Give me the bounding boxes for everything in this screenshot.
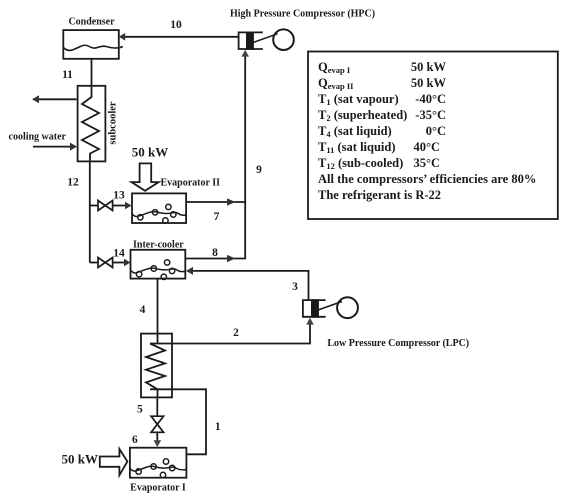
svg-text:Inter-cooler: Inter-cooler [133,240,184,251]
svg-text:50 kW: 50 kW [411,60,447,74]
svg-text:High Pressure Compressor (HPC): High Pressure Compressor (HPC) [230,9,375,20]
intercooler IC [131,250,186,280]
svg-text:4: 4 [140,304,146,316]
condenser C [63,30,123,59]
wire 2 (HX to LPC) [150,318,314,344]
svg-text:-35°C: -35°C [415,108,446,122]
wire 11 (condenser to subcooler) [91,59,93,86]
svg-text:10: 10 [170,19,182,31]
svg-text:35°C: 35°C [413,156,440,170]
svg-text:7: 7 [214,211,220,223]
cooling water inlet arrow [33,143,77,151]
svg-text:2: 2 [233,327,239,339]
valve V13 [90,201,132,211]
svg-text:6: 6 [132,434,138,446]
wire 12 (subcooler down to valves) [89,161,91,262]
svg-text:50 kW: 50 kW [132,145,168,160]
subcooler SC [78,86,106,162]
svg-text:9: 9 [256,164,262,176]
svg-text:Condenser: Condenser [68,17,115,28]
info text [318,60,536,202]
svg-text:50 kW: 50 kW [411,76,447,90]
info box [308,52,558,220]
evaporator E2 [132,193,187,223]
wire 10 (HPC to condenser) [119,33,239,41]
wire 3 (LPC to intercooler) [186,267,309,300]
svg-text:T1 (sat vapour): T1 (sat vapour) [318,92,399,107]
svg-text:The refrigerant is R-22: The refrigerant is R-22 [318,188,441,202]
svg-text:11: 11 [62,69,73,81]
wire 9 (into HPC) [241,50,249,259]
svg-text:3: 3 [292,281,298,293]
svg-text:14: 14 [113,248,125,260]
svg-text:40°C: 40°C [413,140,440,154]
heat input block arrow (Evaporator I) [100,449,128,475]
svg-text:13: 13 [113,190,125,202]
svg-text:8: 8 [212,247,218,259]
svg-text:T2 (superheated): T2 (superheated) [318,108,407,123]
svg-text:All the compressors’ efficienc: All the compressors’ efficiencies are 80… [318,172,536,186]
wire 6 (valve to Evap I) [154,432,162,447]
svg-text:Evaporator II: Evaporator II [161,178,221,189]
wire 5 (HX to valve) [156,397,158,416]
wire 4 (intercooler to HX) [157,279,159,344]
svg-text:subcooler: subcooler [108,101,119,145]
svg-text:Evaporator I: Evaporator I [130,483,186,494]
valve V56 (expansion valve) [151,416,163,432]
svg-text:0°C: 0°C [426,124,446,138]
wire 1 (Evap I to HX) [150,389,206,454]
svg-text:1: 1 [215,421,221,433]
heat input block arrow (Evaporator II) [132,163,159,190]
wire 7 (Evap II to line 9) [186,198,245,205]
svg-text:cooling water: cooling water [9,132,67,143]
svg-text:-40°C: -40°C [415,92,446,106]
svg-text:12: 12 [67,177,79,189]
compressor U-LPC [303,297,358,318]
wire 8 (intercooler to line 9) [185,255,245,262]
cooling water outlet arrow [32,95,77,103]
svg-text:Low Pressure Compressor (LPC): Low Pressure Compressor (LPC) [327,338,469,349]
valve V14 [90,258,131,268]
heat exchanger HX [141,334,172,398]
svg-text:50 kW: 50 kW [62,452,98,467]
evaporator E1 [130,448,187,478]
svg-text:5: 5 [137,404,143,416]
compressor U-HPC [239,29,294,50]
